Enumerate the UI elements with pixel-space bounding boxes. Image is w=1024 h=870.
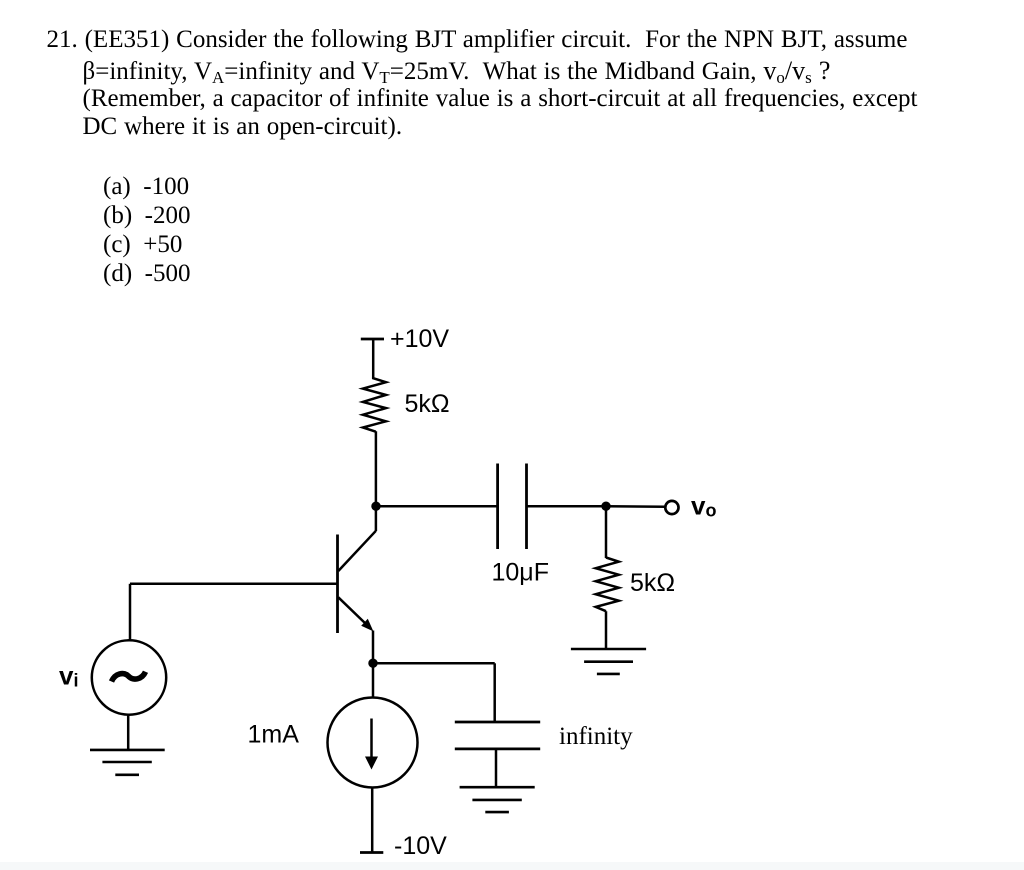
label infinity [559,723,633,750]
wire C2 to ground [495,749,498,787]
wire Vi to ground [127,715,130,750]
wire R1 to collector node [375,431,378,531]
svg-text:5kΩ: 5kΩ [630,569,675,597]
wire node to R2 [605,506,608,558]
capacitor C2 infinite [455,722,540,749]
wire node E to I1 [372,663,375,698]
wire C1 to output node [527,505,607,508]
source Vi circle [92,640,166,714]
capacitor C1 10uF [498,464,527,550]
resistor R2 5k load [596,558,619,612]
svg-text:+10V: +10V [390,325,449,353]
wire supply to R1 [372,339,375,378]
svg-text:vo: vo [691,491,716,521]
label 5k R1 [405,390,450,418]
wire R2 to ground [605,611,608,649]
wire I1 to -10V [371,788,374,853]
wire node to C1 [376,505,498,508]
wire base to Vi [130,583,338,586]
transistor Q1 collector lead [338,531,376,571]
node B output dot [601,502,610,511]
label Vi [59,661,78,691]
ground G3 [460,787,535,812]
transistor Q1 emitter lead with arrow [338,597,373,631]
svg-text:vi: vi [59,661,78,691]
svg-text:10μF: 10μF [492,559,549,587]
current source I1 arrow [365,719,378,770]
wire node to terminal Vo [606,505,666,508]
svg-text:-10V: -10V [394,832,447,860]
svg-text:infinity: infinity [559,723,633,750]
power -10V bar [360,851,383,854]
label 10uF [492,559,549,587]
ground G1 [571,649,646,674]
label -10V [394,832,447,860]
label +10V [390,325,449,353]
terminal Vo circle [665,501,678,514]
power +10V bar [361,338,384,341]
ground G2 [90,750,165,775]
label 1mA [248,721,300,749]
wire node E to C2 [373,663,495,722]
transistor Q1 base bar [336,535,339,634]
source Vi sine symbol [112,672,146,682]
current source I1 circle [328,698,418,788]
svg-text:5kΩ: 5kΩ [405,390,450,418]
node E emitter dot [368,659,377,668]
svg-text:1mA: 1mA [248,721,300,749]
label Vo [691,491,716,521]
resistor R1 5k [363,378,386,432]
label 5k R2 [630,569,675,597]
wire Vi top [129,584,132,641]
wire emitter to node E [372,631,375,665]
node A collector dot [371,502,380,511]
